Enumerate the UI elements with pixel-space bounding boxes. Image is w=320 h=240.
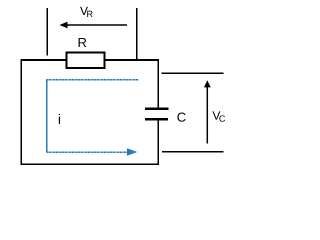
capacitor C plate 2 [145, 118, 168, 121]
wire VC bottom lead [162, 151, 224, 153]
svg-text:i: i [58, 111, 61, 127]
svg-text:C: C [177, 110, 186, 125]
svg-text:C: C [219, 114, 226, 124]
current loop i top segment [47, 79, 139, 81]
arrow VC [204, 80, 211, 143]
current loop i left segment [46, 80, 48, 152]
wire loop bottom [21, 163, 158, 165]
svg-text:R: R [86, 9, 93, 19]
wire VC top lead [162, 72, 224, 74]
wire loop right upper [157, 59, 159, 107]
wire right probe lead [136, 8, 138, 60]
svg-text:R: R [77, 35, 86, 50]
label VR [80, 4, 94, 19]
resistor R [67, 53, 105, 69]
wire left probe lead [46, 8, 48, 56]
label VC [212, 109, 226, 124]
wire loop right lower [157, 120, 159, 165]
current loop arrowhead [127, 148, 137, 156]
wire loop left [20, 59, 22, 165]
capacitor C plate 1 [145, 108, 169, 111]
arrow VR [60, 22, 128, 29]
current loop i bottom segment [47, 151, 129, 153]
wire loop top [21, 59, 158, 61]
